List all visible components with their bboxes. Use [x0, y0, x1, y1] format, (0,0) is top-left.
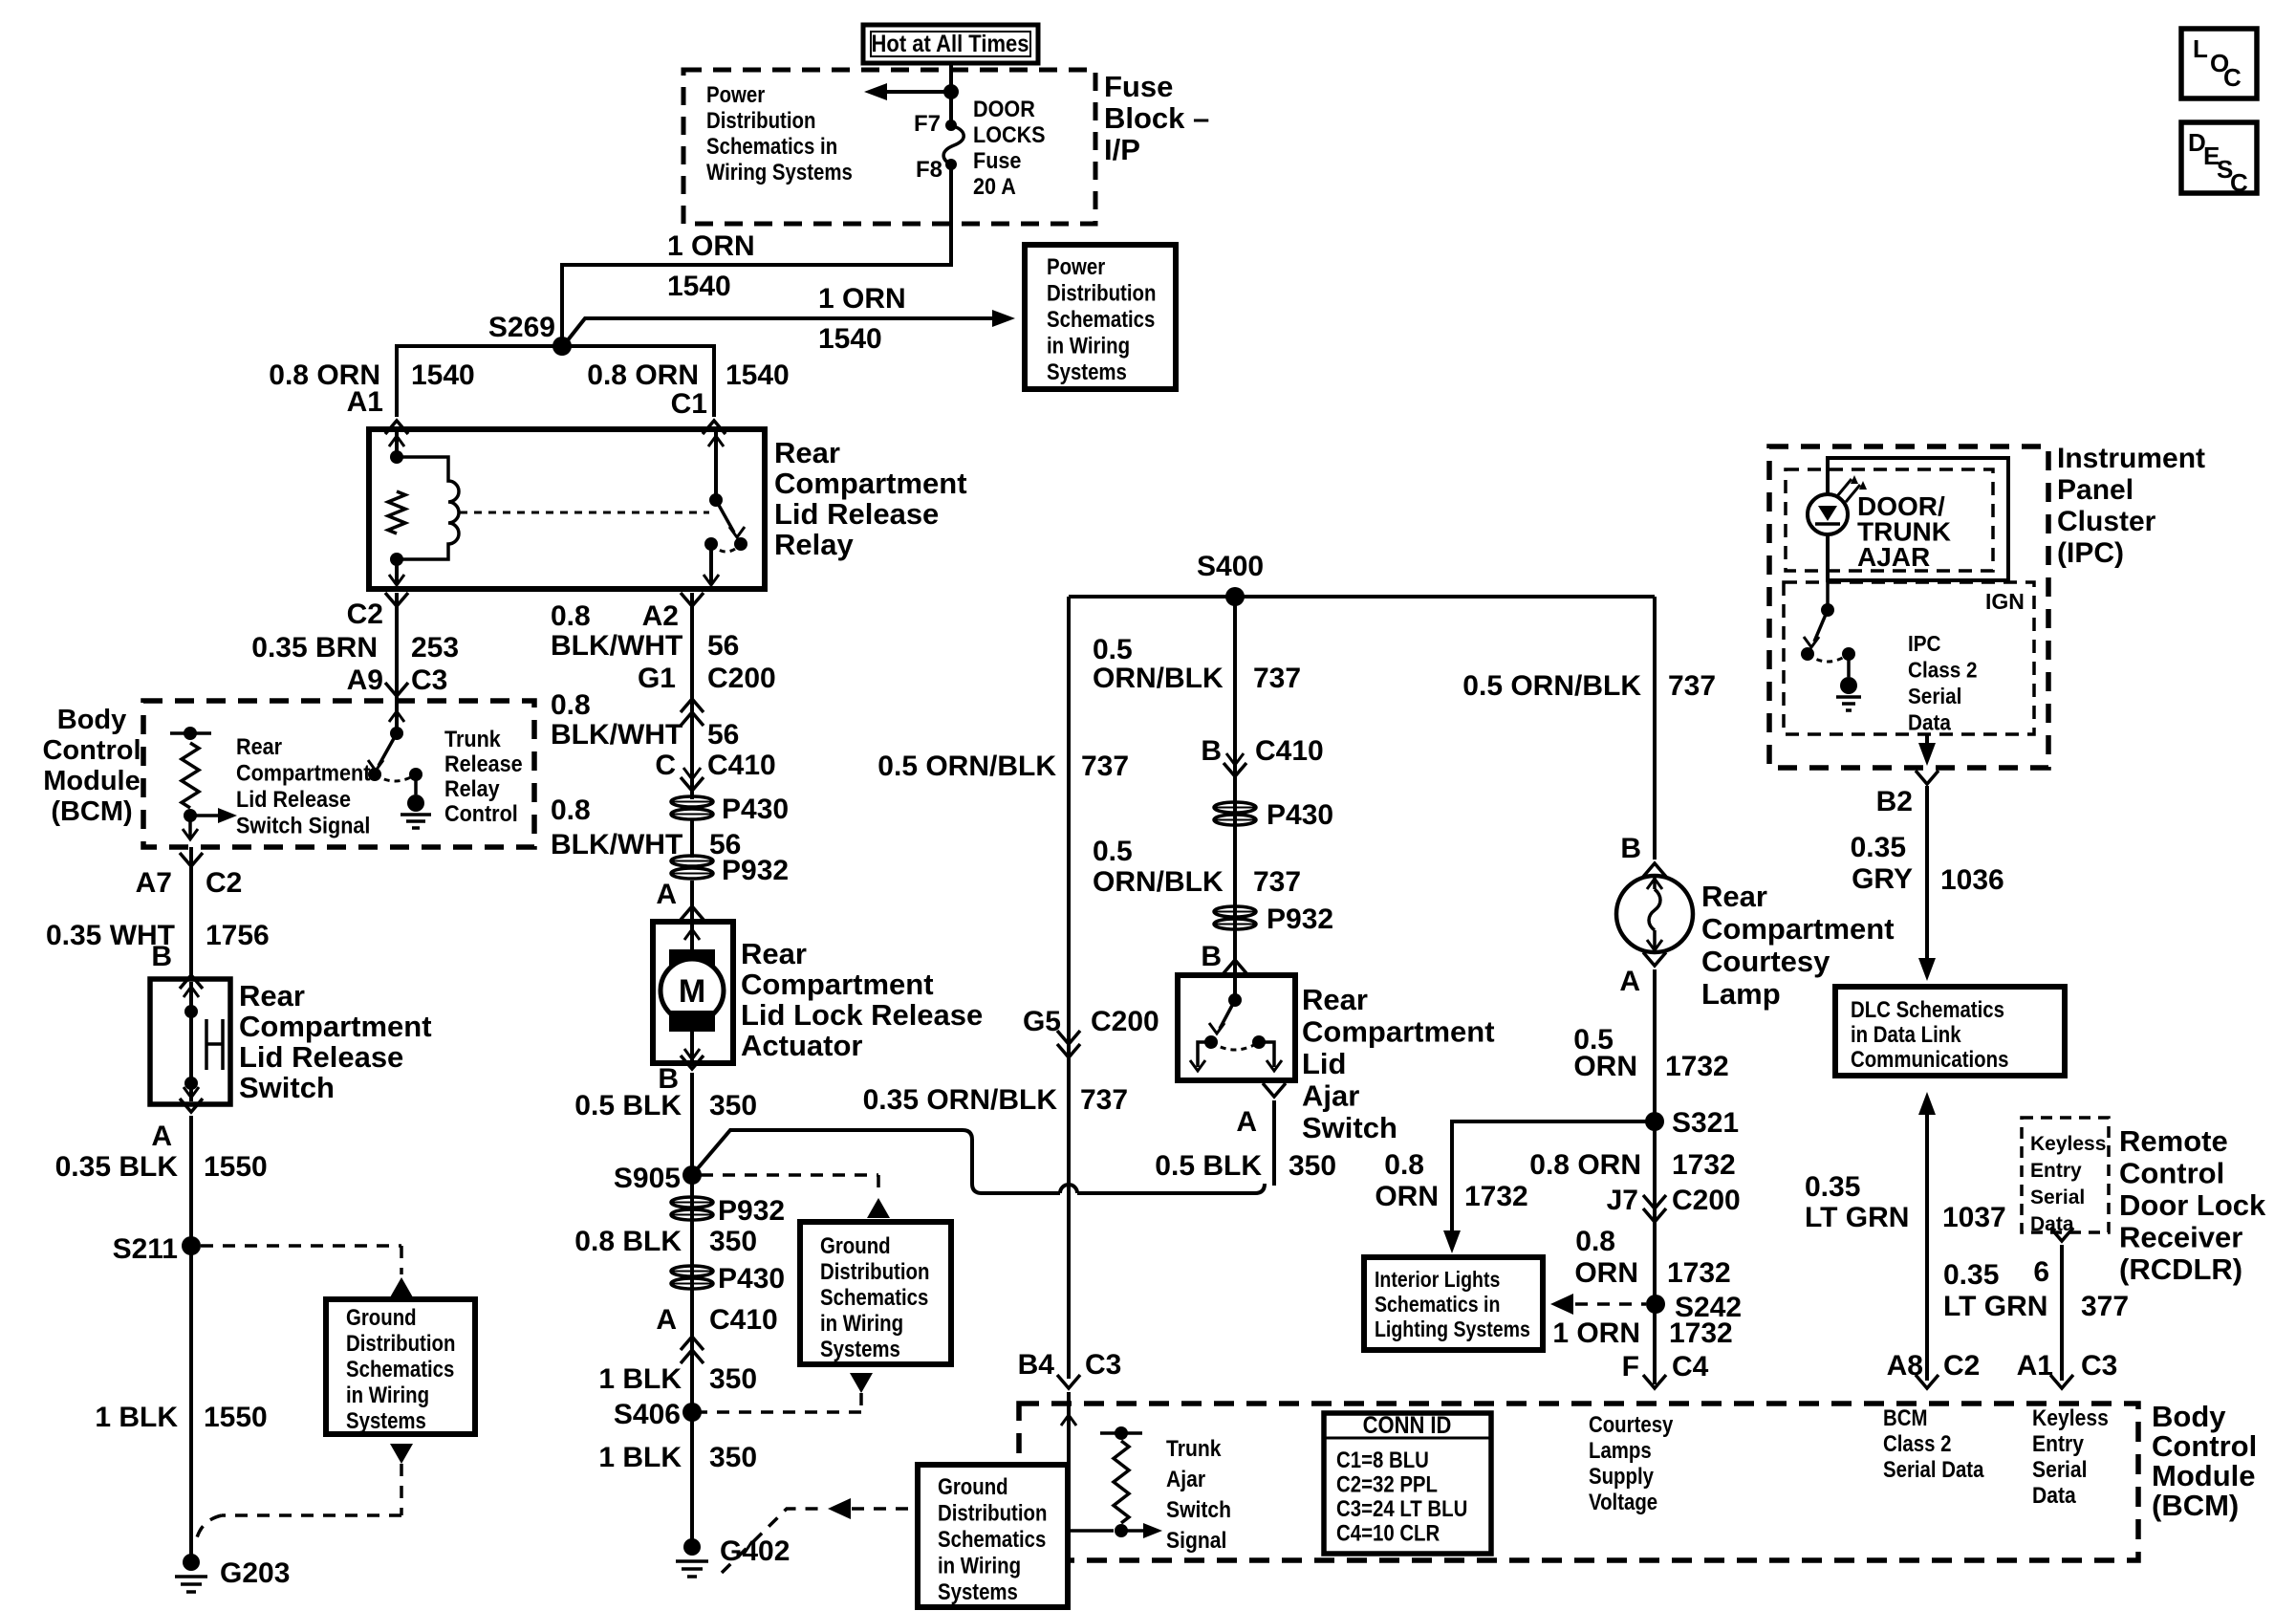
svg-text:J7: J7	[1607, 1185, 1638, 1216]
svg-text:CONN ID: CONN ID	[1363, 1412, 1452, 1439]
door/trunk ajar LED	[1826, 458, 1830, 610]
connector chevron A1	[385, 421, 408, 434]
connector chevron BCM A1	[2050, 1375, 2073, 1388]
svg-text:0.8: 0.8	[1575, 1226, 1615, 1257]
svg-text:(BCM): (BCM)	[2152, 1489, 2239, 1522]
svg-text:Lid: Lid	[1302, 1047, 1347, 1080]
svg-text:Lamps: Lamps	[1589, 1437, 1652, 1463]
svg-text:1732: 1732	[1464, 1181, 1528, 1212]
svg-text:F: F	[1622, 1351, 1639, 1382]
BCM internal resistor circuit (switch signal)	[170, 731, 211, 735]
svg-text:56: 56	[707, 630, 739, 662]
rear compartment lid ajar switch box	[1178, 975, 1295, 1080]
svg-text:C1=8 BLU: C1=8 BLU	[1336, 1447, 1429, 1472]
svg-text:1 BLK: 1 BLK	[95, 1402, 178, 1433]
DESC reference box	[2181, 122, 2257, 193]
svg-text:Rear: Rear	[1302, 983, 1368, 1016]
svg-text:1 BLK: 1 BLK	[598, 1363, 682, 1395]
svg-text:in Wiring: in Wiring	[820, 1310, 903, 1336]
svg-text:B2: B2	[1876, 786, 1913, 817]
svg-text:ORN/BLK: ORN/BLK	[1093, 663, 1224, 694]
wire switch A to S211 to G203 (0.35 BLK 1550)	[189, 1116, 193, 1555]
relay switch dashed arc	[711, 544, 741, 552]
connector chevron BCM A8	[1916, 1375, 1939, 1388]
svg-text:1540: 1540	[411, 359, 475, 391]
wire S406 to ground G402	[690, 1412, 694, 1541]
connector chevron RCDLR 6	[2050, 1228, 2073, 1241]
wire BCM A8 to DLC (0.35 LT GRN 1037)	[1925, 1114, 1929, 1381]
body control module BCM dashed box	[143, 701, 534, 847]
svg-text:Data: Data	[2032, 1483, 2076, 1509]
svg-text:Rear: Rear	[741, 937, 807, 970]
svg-text:GRY: GRY	[1852, 863, 1913, 895]
svg-text:Keyless: Keyless	[2030, 1133, 2106, 1155]
wire S400 right branch to courtesy lamp (0.5 ORN/BLK 737)	[1653, 597, 1657, 860]
svg-text:Compartment: Compartment	[741, 968, 934, 1001]
relay switch common pin from C1	[714, 432, 718, 500]
svg-text:Instrument: Instrument	[2057, 443, 2205, 474]
svg-text:Trunk: Trunk	[1166, 1436, 1222, 1462]
svg-text:737: 737	[1253, 663, 1301, 694]
wire arrow to other power distribution (left)	[876, 90, 946, 94]
svg-text:in Data Link: in Data Link	[1851, 1021, 1961, 1047]
svg-text:G1: G1	[638, 663, 676, 694]
svg-text:B: B	[1201, 941, 1222, 972]
svg-text:S905: S905	[614, 1163, 681, 1194]
svg-text:C: C	[655, 750, 676, 781]
svg-text:Distribution: Distribution	[1047, 280, 1156, 306]
svg-text:C3=24 LT BLU: C3=24 LT BLU	[1336, 1495, 1467, 1521]
wire P430 to C410 to S406	[690, 1243, 694, 1412]
svg-text:0.35 ORN/BLK: 0.35 ORN/BLK	[863, 1084, 1058, 1116]
svg-text:Door Lock: Door Lock	[2119, 1188, 2266, 1222]
svg-text:Schematics in: Schematics in	[1375, 1293, 1500, 1317]
wire C200 to C410 (0.8 BLK/WHT 56)	[690, 712, 694, 798]
svg-text:Ground: Ground	[938, 1473, 1008, 1499]
svg-text:Serial Data: Serial Data	[1883, 1456, 1984, 1482]
svg-text:Release: Release	[444, 751, 523, 776]
grommet P430 (center)	[1214, 802, 1256, 813]
svg-text:Power: Power	[706, 81, 766, 107]
svg-text:1540: 1540	[726, 359, 790, 391]
dashed link S211 to ground distribution box	[201, 1244, 401, 1248]
power distribution schematics box (top right)	[1025, 245, 1176, 389]
svg-text:A: A	[1236, 1106, 1257, 1138]
svg-text:Switch: Switch	[1166, 1497, 1231, 1523]
svg-text:A: A	[656, 1304, 677, 1336]
svg-text:Ajar: Ajar	[1302, 1079, 1359, 1113]
svg-text:20 A: 20 A	[973, 173, 1016, 199]
svg-text:S211: S211	[113, 1233, 178, 1265]
svg-text:LT GRN: LT GRN	[1805, 1202, 1909, 1233]
svg-text:Switch Signal: Switch Signal	[236, 812, 370, 838]
svg-text:C2: C2	[347, 599, 383, 630]
grommet P932 (lower)	[671, 1197, 713, 1208]
wire S269 to relay pin A1 (0.8 ORN 1540)	[397, 346, 562, 417]
svg-text:0.35: 0.35	[1851, 832, 1906, 863]
svg-text:C4=10 CLR: C4=10 CLR	[1336, 1520, 1440, 1546]
svg-text:0.8 ORN: 0.8 ORN	[1529, 1149, 1641, 1181]
svg-text:0.5 ORN/BLK: 0.5 ORN/BLK	[877, 751, 1056, 782]
svg-text:Distribution: Distribution	[706, 107, 815, 133]
dashed link bottom ground box to G402	[722, 1509, 825, 1573]
svg-text:C3: C3	[1085, 1349, 1121, 1381]
svg-text:0.5 ORN/BLK: 0.5 ORN/BLK	[1462, 670, 1641, 702]
svg-text:Module: Module	[2152, 1459, 2256, 1492]
svg-text:Systems: Systems	[346, 1407, 426, 1433]
connector chevron ajar B	[1224, 960, 1246, 973]
svg-text:P430: P430	[722, 794, 789, 825]
svg-text:Lid Release: Lid Release	[774, 497, 939, 531]
svg-text:0.5: 0.5	[1093, 836, 1133, 867]
splice S406	[682, 1403, 702, 1422]
svg-text:Body: Body	[2152, 1400, 2226, 1433]
svg-text:Lid Release: Lid Release	[239, 1040, 403, 1074]
fuse F8 DOOR LOCKS Fuse 20 A	[945, 120, 957, 131]
svg-text:P430: P430	[718, 1263, 785, 1295]
svg-text:Courtesy: Courtesy	[1701, 945, 1830, 978]
connector chevron A9-C3	[385, 683, 408, 696]
splice S242	[1646, 1295, 1665, 1314]
svg-text:P932: P932	[722, 855, 789, 886]
svg-text:Class 2: Class 2	[1908, 657, 1977, 682]
rear compartment lid release relay box	[369, 429, 765, 589]
IPC lower dashed box	[1784, 582, 2034, 734]
svg-text:C: C	[2230, 168, 2248, 197]
svg-text:737: 737	[1081, 751, 1129, 782]
svg-text:6: 6	[2033, 1256, 2049, 1288]
svg-text:Supply: Supply	[1589, 1463, 1655, 1489]
svg-text:Serial: Serial	[1908, 684, 1961, 708]
svg-text:B4: B4	[1018, 1349, 1055, 1381]
CONN ID table	[1324, 1413, 1491, 1554]
svg-text:Class 2: Class 2	[1883, 1430, 1951, 1456]
svg-text:Control: Control	[2119, 1157, 2224, 1190]
svg-text:1 ORN: 1 ORN	[818, 283, 906, 315]
svg-text:0.8 ORN: 0.8 ORN	[587, 359, 699, 391]
svg-text:Relay: Relay	[444, 775, 500, 801]
grommet P430	[671, 796, 713, 807]
dashed link S242 to interior lights box	[1575, 1302, 1646, 1306]
svg-text:737: 737	[1080, 1084, 1128, 1116]
svg-text:A: A	[151, 1121, 172, 1152]
wire S269 to relay pin C1 (0.8 ORN 1540)	[562, 346, 714, 417]
svg-text:C3: C3	[411, 664, 447, 696]
svg-text:G203: G203	[220, 1557, 290, 1589]
grommet P430 (lower)	[671, 1266, 713, 1276]
svg-text:Schematics in: Schematics in	[706, 133, 837, 159]
svg-text:Rear: Rear	[1701, 880, 1767, 913]
ground distribution schematics box (bottom center)	[918, 1465, 1068, 1607]
splice S269	[552, 337, 572, 356]
svg-text:Distribution: Distribution	[820, 1258, 929, 1284]
svg-text:Switch: Switch	[1302, 1111, 1397, 1144]
dashed link S905 to ground distribution box	[701, 1173, 878, 1177]
svg-text:Systems: Systems	[820, 1336, 900, 1361]
grommet P932	[671, 856, 713, 866]
svg-text:IGN: IGN	[1985, 589, 2025, 614]
svg-text:Body: Body	[57, 705, 127, 735]
connector chevron actuator B	[681, 1056, 704, 1069]
splice S400	[1225, 587, 1245, 606]
svg-text:0.8: 0.8	[1384, 1149, 1424, 1181]
svg-text:737: 737	[1253, 866, 1301, 898]
svg-text:Module: Module	[43, 766, 141, 796]
relay switch pivot dot	[709, 493, 723, 507]
svg-text:A9: A9	[347, 664, 383, 696]
dashed link ground box to S406	[850, 1373, 873, 1393]
relay coil branch pin A1 internal	[395, 432, 399, 457]
wire from Hot at All Times to fuse F7	[949, 63, 953, 125]
svg-text:Control: Control	[42, 735, 141, 766]
svg-text:in Wiring: in Wiring	[346, 1382, 429, 1407]
connector chevron B2	[1916, 771, 1939, 784]
svg-text:0.35 BRN: 0.35 BRN	[251, 632, 378, 664]
inline connector C200 G1	[681, 699, 704, 712]
svg-text:350: 350	[709, 1442, 757, 1473]
svg-text:ORN/BLK: ORN/BLK	[1093, 866, 1224, 898]
svg-text:1540: 1540	[667, 271, 731, 302]
svg-text:Schematics: Schematics	[938, 1526, 1046, 1552]
wire IPC B2 to DLC box (0.35 GRY 1036)	[1925, 786, 1929, 968]
svg-text:Interior Lights: Interior Lights	[1375, 1268, 1500, 1293]
svg-text:LT GRN: LT GRN	[1943, 1291, 2047, 1322]
svg-text:Schematics: Schematics	[346, 1356, 454, 1382]
ground distribution schematics box (center)	[800, 1222, 951, 1364]
lid release switch internals	[189, 982, 193, 1101]
svg-text:0.8 BLK: 0.8 BLK	[574, 1226, 682, 1257]
svg-text:377: 377	[2081, 1291, 2129, 1322]
svg-text:Remote: Remote	[2119, 1124, 2228, 1158]
wire S269 to power distribution arrow (1 ORN 1540)	[567, 318, 1004, 341]
ground G203	[183, 1554, 200, 1571]
svg-text:IPC: IPC	[1908, 631, 1941, 656]
svg-text:1550: 1550	[204, 1402, 268, 1433]
instrument panel cluster IPC dashed box	[1769, 446, 2048, 768]
svg-text:S406: S406	[614, 1399, 681, 1430]
svg-text:1732: 1732	[1672, 1149, 1736, 1181]
svg-text:0.8: 0.8	[551, 795, 591, 826]
connector chevron A7-C2	[180, 853, 203, 866]
svg-text:A2: A2	[642, 600, 679, 632]
LOC reference box	[2181, 29, 2257, 98]
svg-text:B: B	[151, 941, 172, 972]
interior lights schematics box	[1364, 1257, 1543, 1350]
svg-text:1036: 1036	[1940, 864, 2004, 896]
svg-text:350: 350	[709, 1363, 757, 1395]
inline connector C410 A (lower)	[681, 1337, 704, 1350]
wire S400 left branch 737 down to BCM B4	[1067, 597, 1071, 1379]
ground G402	[683, 1538, 701, 1556]
svg-text:1540: 1540	[818, 323, 882, 355]
fuse block dashed box (Fuse Block - I/P)	[683, 70, 1095, 224]
inline connector C410 C	[683, 768, 701, 779]
svg-text:Distribution: Distribution	[938, 1500, 1047, 1526]
svg-text:Compartment: Compartment	[1302, 1015, 1495, 1049]
svg-text:B: B	[1201, 735, 1222, 767]
grommet P932 (center)	[1214, 906, 1256, 917]
svg-text:Courtesy: Courtesy	[1589, 1411, 1674, 1437]
svg-text:L: L	[2193, 34, 2208, 63]
svg-text:S321: S321	[1672, 1107, 1739, 1139]
svg-text:C200: C200	[707, 663, 776, 694]
lid ajar switch internals	[1233, 978, 1237, 1000]
wire S905 to lid ajar switch A (0.35 ORN/BLK 737 / 0.5 BLK 350)	[692, 1130, 1265, 1193]
svg-text:350: 350	[1289, 1150, 1336, 1182]
svg-text:S269: S269	[488, 312, 555, 343]
svg-text:1 ORN: 1 ORN	[667, 230, 755, 262]
svg-text:(IPC): (IPC)	[2057, 537, 2124, 569]
svg-text:350: 350	[709, 1226, 757, 1257]
svg-text:Serial: Serial	[2032, 1457, 2088, 1483]
svg-text:P932: P932	[1267, 903, 1333, 935]
svg-text:F8: F8	[916, 157, 942, 183]
connector chevron C2	[385, 593, 408, 606]
connector chevron actuator A	[681, 906, 704, 920]
svg-text:Schematics: Schematics	[820, 1284, 928, 1310]
wire relay C2 to BCM A9 (0.35 BRN 253)	[395, 593, 399, 701]
svg-text:P932: P932	[718, 1195, 785, 1227]
svg-text:A1: A1	[2017, 1350, 2053, 1382]
svg-text:Ground: Ground	[820, 1232, 891, 1258]
body control module BCM bottom dashed box	[1019, 1404, 2138, 1560]
connector chevron C1	[703, 421, 726, 434]
svg-text:1 ORN: 1 ORN	[1552, 1317, 1640, 1349]
svg-text:1756: 1756	[206, 920, 270, 951]
svg-text:C2=32 PPL: C2=32 PPL	[1336, 1471, 1438, 1497]
svg-text:0.8: 0.8	[551, 600, 591, 632]
svg-text:in Wiring: in Wiring	[938, 1553, 1021, 1578]
svg-text:C410: C410	[1255, 735, 1324, 767]
rear compartment lid lock release actuator box	[653, 922, 733, 1063]
svg-text:A: A	[656, 879, 677, 910]
svg-text:Power: Power	[1047, 253, 1106, 279]
svg-text:Rear: Rear	[239, 979, 305, 1012]
connector chevron A2	[681, 593, 704, 606]
svg-text:Wiring Systems: Wiring Systems	[706, 159, 853, 185]
svg-text:C410: C410	[707, 750, 776, 781]
svg-text:0.35 BLK: 0.35 BLK	[55, 1151, 179, 1183]
svg-text:(BCM): (BCM)	[51, 796, 132, 827]
svg-text:ORN: ORN	[1574, 1257, 1638, 1289]
svg-text:DOOR: DOOR	[973, 96, 1035, 121]
wire S400 horizontal bus	[1069, 595, 1655, 599]
svg-text:Control: Control	[444, 800, 518, 826]
IPC internal switch and ground	[1821, 603, 1834, 617]
svg-text:C: C	[2223, 63, 2242, 92]
wire ajar A down to junction	[1272, 1100, 1276, 1186]
BCM trunk ajar switch signal circuit	[1067, 1392, 1071, 1531]
wire S321 to interior lights arrow (0.8 ORN 1732)	[1452, 1121, 1655, 1241]
svg-text:56: 56	[707, 719, 739, 751]
svg-text:Compartment: Compartment	[1701, 912, 1895, 946]
svg-text:C4: C4	[1672, 1351, 1709, 1382]
svg-text:BCM: BCM	[1883, 1404, 1927, 1430]
svg-text:C200: C200	[1091, 1006, 1159, 1037]
svg-text:Receiver: Receiver	[2119, 1221, 2242, 1254]
wire actuator B to S905 (0.5 BLK 350)	[690, 1073, 694, 1243]
splice S321	[1645, 1112, 1664, 1131]
svg-text:Actuator: Actuator	[741, 1029, 862, 1062]
node Hot at All Times feed box	[863, 25, 1038, 63]
relay coil bottom dot	[390, 553, 403, 566]
connector chevron switch B	[180, 975, 203, 989]
svg-text:Lid Lock Release: Lid Lock Release	[741, 998, 983, 1032]
svg-text:C1: C1	[671, 388, 707, 420]
svg-text:737: 737	[1668, 670, 1716, 702]
svg-text:I/P: I/P	[1104, 133, 1140, 166]
junction dot on feed wire	[943, 84, 959, 99]
svg-text:C410: C410	[709, 1304, 778, 1336]
svg-text:S400: S400	[1197, 551, 1264, 582]
svg-text:G5: G5	[1023, 1006, 1061, 1037]
svg-text:Cluster: Cluster	[2057, 506, 2156, 537]
svg-text:Block –: Block –	[1104, 101, 1209, 135]
svg-text:Data: Data	[1908, 709, 1952, 734]
svg-text:Ground: Ground	[346, 1304, 417, 1330]
svg-text:Hot at All Times: Hot at All Times	[872, 31, 1029, 57]
rear compartment lid release switch box	[150, 979, 230, 1104]
svg-text:Ajar: Ajar	[1166, 1467, 1205, 1492]
svg-text:A: A	[1619, 966, 1640, 997]
rear compartment courtesy lamp	[1616, 876, 1693, 952]
IPC serial data output arrow	[1925, 734, 1929, 755]
svg-text:Relay: Relay	[774, 528, 854, 561]
svg-text:1732: 1732	[1665, 1051, 1729, 1082]
wire BCM A7 to lid release switch B (0.35 WHT 1756)	[189, 847, 193, 979]
relay dashed actuation link	[460, 512, 709, 514]
IPC indicator dashed box	[1786, 469, 1993, 571]
svg-text:C3: C3	[2081, 1350, 2117, 1382]
wire fuse output to S269 (1 ORN 1540)	[562, 164, 951, 339]
svg-text:253: 253	[411, 632, 459, 664]
relay resistor	[388, 491, 405, 533]
svg-text:ORN: ORN	[1573, 1051, 1637, 1082]
relay switch output pin A2 internal	[709, 544, 713, 583]
svg-text:1732: 1732	[1667, 1257, 1731, 1289]
svg-text:M: M	[679, 973, 705, 1010]
connector chevron lamp A	[1643, 952, 1666, 966]
wire lamp A to S321 (0.5 ORN 1732)	[1653, 969, 1657, 1384]
svg-text:0.5 BLK: 0.5 BLK	[1155, 1150, 1262, 1182]
svg-text:Voltage: Voltage	[1589, 1489, 1657, 1514]
DLC schematics box	[1835, 987, 2065, 1076]
svg-text:BLK/WHT: BLK/WHT	[551, 630, 682, 662]
svg-text:1 BLK: 1 BLK	[598, 1442, 682, 1473]
svg-text:Panel: Panel	[2057, 474, 2134, 506]
actuator motor M	[690, 925, 694, 949]
svg-text:Keyless: Keyless	[2032, 1405, 2109, 1431]
remote control door lock receiver dashed box (Keyless Entry Serial Data)	[2022, 1118, 2109, 1232]
svg-text:P430: P430	[1267, 799, 1333, 831]
relay switch blade	[716, 500, 734, 533]
svg-text:0.35: 0.35	[1943, 1259, 1999, 1291]
wire relay A2 to C200 (0.8 BLK/WHT 56)	[690, 593, 694, 712]
svg-text:DLC Schematics: DLC Schematics	[1851, 996, 2004, 1022]
relay pin C2 internal	[395, 559, 399, 583]
svg-text:Trunk: Trunk	[444, 726, 501, 751]
wire RCDLR to BCM A1 (0.35 LT GRN 377)	[2060, 1245, 2064, 1381]
svg-text:A7: A7	[136, 867, 172, 899]
svg-text:in Wiring: in Wiring	[1047, 333, 1130, 359]
svg-text:1550: 1550	[204, 1151, 268, 1183]
connector chevron ajar A	[1263, 1083, 1286, 1097]
relay coil top dot	[390, 450, 403, 464]
svg-text:Serial: Serial	[2030, 1186, 2085, 1208]
splice S905	[682, 1165, 702, 1185]
svg-text:Rear: Rear	[774, 436, 840, 469]
svg-text:0.5 BLK: 0.5 BLK	[574, 1090, 682, 1121]
